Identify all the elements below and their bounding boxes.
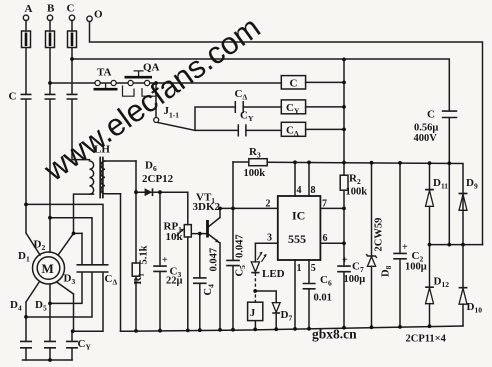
svg-text:7: 7 [322, 199, 327, 210]
svg-text:B: B [47, 3, 55, 15]
svg-text:J: J [250, 307, 256, 319]
svg-text:22μ: 22μ [166, 276, 183, 287]
svg-text:400V: 400V [414, 133, 438, 144]
svg-text:100k: 100k [346, 187, 368, 198]
svg-text:5.1k: 5.1k [139, 245, 150, 264]
svg-text:+: + [402, 242, 408, 253]
svg-text:5: 5 [311, 263, 316, 274]
svg-text:IC: IC [292, 209, 305, 223]
svg-text:6: 6 [323, 233, 328, 244]
svg-text:100μ: 100μ [405, 262, 427, 273]
svg-text:0.047: 0.047 [209, 248, 220, 272]
svg-text:LED: LED [262, 268, 285, 280]
svg-text:M: M [42, 261, 54, 276]
svg-text:C: C [9, 91, 17, 103]
svg-text:2: 2 [266, 199, 271, 210]
svg-text:3: 3 [267, 232, 272, 243]
svg-text:2CW59: 2CW59 [374, 218, 385, 252]
svg-text:TA: TA [97, 67, 112, 79]
svg-text:4: 4 [297, 185, 302, 196]
svg-text:10k: 10k [166, 231, 184, 243]
svg-text:+: + [342, 255, 348, 266]
svg-text:C: C [67, 3, 75, 15]
svg-text:gbx8.cn: gbx8.cn [312, 327, 357, 342]
svg-text:O: O [94, 9, 103, 21]
svg-text:1: 1 [297, 263, 302, 274]
svg-text:C: C [427, 109, 435, 121]
svg-text:C: C [290, 78, 298, 90]
svg-text:0.01: 0.01 [314, 293, 332, 304]
svg-text:2CP12: 2CP12 [142, 173, 174, 185]
svg-text:3DK2: 3DK2 [193, 201, 221, 213]
svg-text:555: 555 [288, 232, 306, 246]
svg-text:8: 8 [311, 185, 316, 196]
svg-text:100k: 100k [244, 168, 266, 179]
svg-text:100μ: 100μ [344, 274, 366, 285]
svg-text:A: A [25, 3, 33, 15]
svg-text:+: + [162, 255, 168, 266]
svg-text:0.56μ: 0.56μ [414, 123, 438, 134]
svg-text:QA: QA [143, 62, 160, 74]
svg-text:2CP11×4: 2CP11×4 [406, 334, 447, 345]
svg-text:0.047: 0.047 [235, 234, 246, 258]
